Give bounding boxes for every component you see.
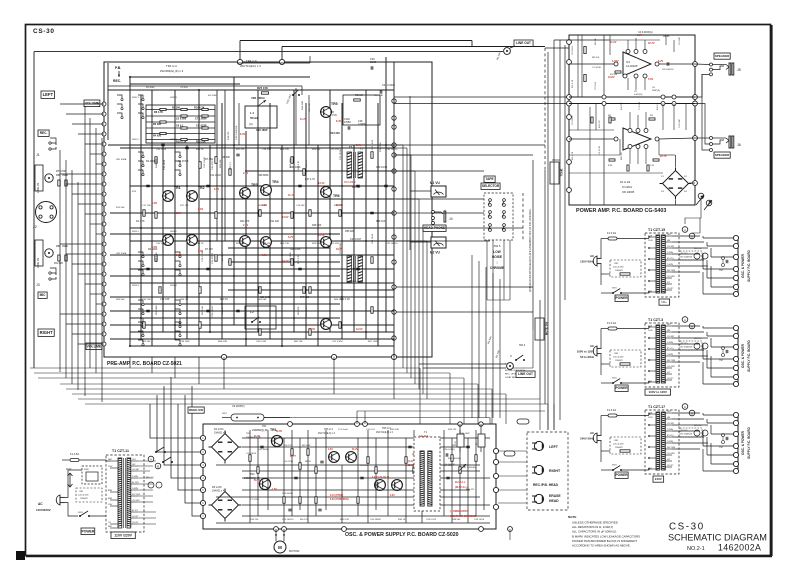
svg-text:OSC. & POWER SUPPLY P.C.: OSC. & POWER SUPPLY P.C. BOARD CZ-5020 — [345, 532, 459, 538]
small components sprinkle — [155, 157, 157, 164]
harness wires block 3 — [703, 414, 733, 416]
switch contact stack S1-1 — [138, 152, 143, 156]
svg-text:(G): (G) — [249, 122, 253, 126]
tone switch stub — [552, 159, 560, 161]
svg-text:/250WV: /250WV — [80, 498, 88, 500]
svg-text:4.7VN: 4.7VN — [330, 114, 337, 117]
svg-text:MIC: MIC — [40, 293, 47, 297]
svg-text:2SD880(Q),(R): 2SD880(Q),(R) — [252, 429, 268, 432]
transformer winding block 1 — [656, 235, 660, 293]
supply board top/bottom terminals — [288, 422, 293, 427]
svg-text:LEFT: LEFT — [549, 445, 559, 449]
svg-text:R99 680K: R99 680K — [258, 174, 269, 177]
svg-text:2.4V: 2.4V — [243, 172, 248, 175]
jack J4 headphone — [432, 211, 435, 214]
svg-text:/250WV: /250WV — [615, 447, 623, 449]
volume control VR2 label — [86, 343, 102, 350]
svg-text:BRN: BRN — [108, 490, 113, 492]
speaker J5 — [714, 53, 730, 59]
svg-text:R29 560: R29 560 — [312, 149, 321, 151]
svg-text:C1 10/16: C1 10/16 — [592, 67, 602, 69]
svg-text:IND-1,2: IND-1,2 — [694, 338, 702, 340]
svg-text:ERASE: ERASE — [549, 494, 561, 498]
transistor TR9 eq — [321, 319, 332, 330]
svg-text:RIGHT: RIGHT — [549, 469, 561, 473]
mech coupling dashed — [544, 48, 546, 170]
line filter CR1 mains — [76, 488, 102, 502]
svg-text:T1 CZT-17: T1 CZT-17 — [648, 405, 665, 409]
wire bundle right risers — [539, 300, 541, 399]
svg-text:10.8V: 10.8V — [608, 76, 615, 79]
CZT-11 secondary taps — [131, 460, 138, 462]
svg-text:C30 100P: C30 100P — [460, 433, 470, 435]
svg-text:SW 5: SW 5 — [494, 244, 501, 248]
svg-text:6.3V: 6.3V — [240, 133, 245, 136]
svg-text:C17 0.1: C17 0.1 — [230, 162, 232, 170]
svg-text:SW1: SW1 — [612, 288, 618, 290]
harness wires block 2 — [703, 327, 733, 329]
svg-text:CR1: CR1 — [614, 263, 619, 265]
svg-text:8T-LP-5: 8T-LP-5 — [681, 253, 688, 255]
svg-text:J3: J3 — [36, 283, 40, 287]
svg-text:PRE-AMP. P.C. BOARD CZ-5021: PRE-AMP. P.C. BOARD CZ-5021 — [107, 361, 182, 367]
svg-text:RG 62K: RG 62K — [54, 261, 63, 265]
svg-text:8.2V: 8.2V — [658, 60, 663, 63]
transistor TR2 right-channel — [187, 235, 198, 246]
svg-text:IND-1,2: IND-1,2 — [694, 425, 702, 427]
svg-text:1N-4001: 1N-4001 — [622, 185, 633, 189]
svg-text:TNT: TNT — [719, 270, 724, 272]
svg-text:C46 180P: C46 180P — [256, 128, 268, 132]
svg-text:R6 85: R6 85 — [663, 35, 670, 38]
bridge rectifier D1-D4 supply — [212, 434, 239, 461]
CZT-11 terminal A — [148, 456, 154, 462]
svg-text:M: M — [278, 545, 282, 550]
svg-text:0.5V: 0.5V — [637, 34, 642, 37]
transformer dashed outline block 3 — [645, 410, 679, 474]
svg-text:C10 10/16: C10 10/16 — [164, 159, 166, 170]
svg-text:11.2V: 11.2V — [610, 41, 617, 44]
svg-text:OV ORN: OV ORN — [667, 453, 675, 455]
svg-text:C4 100/25: C4 100/25 — [246, 453, 257, 455]
svg-text:SW3-2: SW3-2 — [170, 231, 177, 233]
svg-text:C29 10/16: C29 10/16 — [372, 233, 374, 244]
svg-text:R9 4.7K: R9 4.7K — [300, 519, 308, 521]
svg-text:POWER: POWER — [616, 473, 629, 477]
svg-text:5.6V: 5.6V — [648, 78, 653, 81]
svg-text:R8 10K: R8 10K — [595, 38, 597, 45]
svg-text:R1 4.7K: R1 4.7K — [136, 220, 145, 223]
svg-text:120V: 120V — [648, 240, 653, 242]
svg-text:C35 0.0022: C35 0.0022 — [212, 305, 214, 317]
svg-text:P2 0.8A250V: P2 0.8A250V — [681, 256, 693, 259]
svg-text:R35 680: R35 680 — [352, 187, 361, 189]
svg-text:C15 47/6.3: C15 47/6.3 — [212, 253, 214, 264]
svg-text:31.6V: 31.6V — [254, 480, 260, 482]
meter M1 VU — [431, 186, 446, 197]
svg-text:REC.: REC. — [40, 131, 48, 135]
svg-text:CR1: CR1 — [614, 440, 619, 442]
svg-text:TAPE: TAPE — [485, 177, 493, 181]
svg-text:R26 100K: R26 100K — [290, 252, 292, 262]
svg-text:SW3-3: SW3-3 — [132, 285, 139, 287]
svg-text:R22 47K: R22 47K — [240, 220, 250, 223]
wire tape selector drops — [486, 240, 488, 300]
power amp edge terminals — [567, 40, 572, 45]
svg-text:YLW: YLW — [648, 326, 652, 328]
transistor TR1 — [163, 191, 174, 202]
svg-text:120+0.033: 120+0.033 — [613, 444, 624, 446]
svg-text:R35 680: R35 680 — [352, 281, 361, 283]
op-amp IC1 lower half — [623, 128, 651, 150]
svg-text:R15 56K: R15 56K — [116, 207, 125, 209]
power amp misc verticals — [577, 104, 579, 131]
svg-text:5.0V: 5.0V — [214, 188, 219, 191]
svg-text:C15 0.01(K): C15 0.01(K) — [443, 449, 455, 451]
label LINE OUT lower — [516, 371, 535, 377]
svg-text:3.2V: 3.2V — [176, 212, 181, 215]
svg-text:R11 4.7K: R11 4.7K — [572, 79, 574, 88]
line filter CR1 block 1 — [610, 260, 641, 277]
speaker feed wires — [695, 63, 710, 66]
svg-text:ALL CAPACITORS IN µF 50WV(: ALL CAPACITORS IN µF 50WV(J) — [572, 530, 616, 534]
svg-text:UNLESS OTHERWISE SPECIFIED: UNLESS OTHERWISE SPECIFIED — [572, 521, 618, 525]
svg-text:R14 560: R14 560 — [621, 102, 623, 110]
line filter CR1 block 2 — [610, 350, 641, 367]
wire bundle steps down-left — [129, 357, 131, 368]
svg-text:R62 330: R62 330 — [142, 341, 151, 343]
wire eq double verticals — [216, 90, 218, 241]
svg-text:R19 1K: R19 1K — [220, 298, 228, 301]
svg-text:SW6: SW6 — [84, 469, 90, 471]
svg-text:TNT: TNT — [719, 360, 724, 362]
svg-text:C11 0.01: C11 0.01 — [366, 429, 375, 431]
svg-text:120V: 120V — [648, 330, 653, 332]
wire supply left terminal feeds — [150, 404, 201, 438]
terminal A circled block 1 — [682, 227, 688, 233]
svg-text:↕: ↕ — [496, 261, 498, 265]
svg-text:560P(K): 560P(K) — [652, 90, 660, 92]
svg-text:CR1: CR1 — [614, 353, 619, 355]
svg-text:J1: J1 — [36, 153, 40, 157]
svg-text:C6 47/10: C6 47/10 — [284, 461, 294, 463]
harness wires block 1 — [703, 237, 733, 239]
svg-text:SW2-1: SW2-1 — [132, 97, 139, 99]
svg-text:R37 3.3K: R37 3.3K — [374, 95, 384, 97]
svg-text:HEAD: HEAD — [549, 499, 559, 503]
svg-text:2SC711(E,F) x 2: 2SC711(E,F) x 2 — [376, 432, 394, 434]
secondary taps block 1 — [665, 235, 672, 237]
svg-text:U.L.: U.L. — [661, 300, 667, 304]
pre-amp board outline CZ-5021 — [104, 62, 432, 357]
svg-text:1N4001 x 4: 1N4001 x 4 — [212, 490, 225, 493]
svg-text:SW2-2: SW2-2 — [132, 139, 139, 141]
secondary taps block 3 — [665, 412, 672, 414]
primary taps block 1 — [649, 236, 656, 238]
svg-text:R34 220: R34 220 — [330, 131, 340, 135]
wire bundle preamp to supply — [30, 367, 420, 369]
svg-text:MOTOR: MOTOR — [289, 549, 299, 553]
svg-text:OSC. & POWER: OSC. & POWER — [741, 343, 745, 368]
svg-text:R2 100K: R2 100K — [146, 160, 156, 163]
wire transformer block feeders — [539, 399, 541, 430]
svg-text:SW1: SW1 — [612, 378, 618, 380]
svg-text:C22 47/6.3: C22 47/6.3 — [330, 243, 341, 245]
head connector dashed box — [527, 432, 568, 510]
label POWER block 2 — [615, 385, 628, 391]
svg-text:ACCORDING TO AREA SHOWN AS ABO: ACCORDING TO AREA SHOWN AS ABOVE. — [572, 544, 631, 548]
svg-text:30.1V A.L.: 30.1V A.L. — [455, 481, 466, 484]
osc tank resistor boxes — [457, 434, 464, 447]
svg-text:NOTE: NOTE — [568, 515, 576, 519]
svg-text:POWER AMP. P.C. BOARD CG-5: POWER AMP. P.C. BOARD CG-5403 — [576, 208, 666, 214]
terminal B circled block 3 — [689, 410, 695, 416]
svg-text:SW3-4: SW3-4 — [170, 285, 177, 287]
secondary harness block 3 — [672, 412, 700, 414]
svg-text:M1 VU: M1 VU — [430, 181, 440, 185]
svg-text:C2 100/10: C2 100/10 — [572, 45, 574, 55]
tape selector switch box SW5 — [484, 193, 513, 240]
jack J1 — [50, 143, 56, 145]
svg-text:R8 10: R8 10 — [305, 461, 312, 463]
label POWER block 3 — [615, 472, 628, 478]
svg-text:C11 10/16: C11 10/16 — [210, 174, 222, 177]
svg-text:C10 10/16: C10 10/16 — [156, 149, 167, 151]
svg-text:SUPPLY P.C. BOARD: SUPPLY P.C. BOARD — [747, 339, 751, 371]
eq network box — [245, 306, 276, 329]
svg-text:LINE IN: LINE IN — [36, 183, 40, 194]
terminal A circled block 2 — [682, 317, 688, 323]
svg-text:R4 150K: R4 150K — [208, 95, 217, 97]
svg-text:F1 0.3A: F1 0.3A — [607, 321, 616, 325]
svg-text:R58 150: R58 150 — [180, 299, 189, 301]
transistor TR2 — [187, 191, 198, 202]
svg-text:31.2V: 31.2V — [352, 449, 358, 451]
svg-text:R38 10K: R38 10K — [376, 220, 386, 223]
op-amp upper wiring — [569, 63, 614, 65]
transistor TR4 right-channel — [261, 237, 272, 248]
svg-text:LINE OUT: LINE OUT — [518, 372, 533, 376]
label MUTE SW — [535, 318, 544, 340]
svg-text:R64 6.8K: R64 6.8K — [218, 341, 228, 343]
svg-text:1N4001 x 4: 1N4001 x 4 — [214, 432, 227, 435]
svg-text:NOISE: NOISE — [492, 255, 502, 259]
svg-text:J5: J5 — [737, 68, 741, 72]
svg-text:8T-LP-5: 8T-LP-5 — [681, 343, 688, 345]
svg-text:12.0V: 12.0V — [356, 328, 363, 331]
svg-text:C22 47/6.3: C22 47/6.3 — [330, 149, 341, 151]
svg-text:R21 47K: R21 47K — [236, 149, 245, 151]
svg-text:R14 100K: R14 100K — [156, 252, 158, 262]
svg-text:C24 0.022: C24 0.022 — [426, 519, 437, 521]
label HEAD PHONE — [423, 225, 446, 231]
svg-text:R29 560: R29 560 — [312, 243, 321, 245]
svg-text:R4 620: R4 620 — [153, 135, 162, 138]
transistor TR1 supply — [271, 435, 282, 446]
svg-text:T1 CZT-11: T1 CZT-11 — [112, 449, 129, 453]
AC plug block 1 — [593, 256, 597, 266]
svg-text:L16 56P(K): L16 56P(K) — [444, 464, 455, 466]
svg-text:C2 100/10: C2 100/10 — [572, 115, 574, 125]
bracket terminals block 1 — [733, 235, 738, 240]
svg-text:SELECTOR: SELECTOR — [482, 184, 500, 188]
svg-text:C7 0.0056: C7 0.0056 — [195, 118, 207, 121]
svg-text:L.2: L.2 — [250, 310, 254, 314]
svg-text:6.63: 6.63 — [198, 208, 203, 211]
rec/pb head RIGHT — [534, 465, 543, 474]
bias feed box — [343, 95, 380, 125]
secondary harness block 1 — [672, 235, 700, 237]
svg-text:C39 100P: C39 100P — [180, 341, 190, 343]
svg-text:TR1 to 3: TR1 to 3 — [166, 64, 177, 68]
bridge connections — [675, 155, 677, 167]
svg-text:SW7: SW7 — [222, 413, 228, 415]
pre-amp right bus terminals — [392, 99, 396, 103]
line out jack lower — [507, 363, 514, 370]
svg-text:9.1V: 9.1V — [262, 254, 267, 257]
svg-text:SPEAKER: SPEAKER — [715, 54, 730, 58]
voltage box block 2 — [645, 389, 671, 395]
wire A/B feeds to transformers — [685, 199, 701, 224]
label LINE OUT upper — [514, 40, 533, 46]
svg-text:AC: AC — [590, 431, 594, 435]
svg-text:C7 0.022: C7 0.022 — [639, 101, 641, 110]
svg-text:120+0.033: 120+0.033 — [78, 495, 89, 497]
label LINE IN upper — [35, 165, 43, 191]
secondary taps block 2 — [665, 325, 672, 327]
svg-text:C19 30P: C19 30P — [296, 205, 305, 207]
svg-text:110V: 110V — [66, 468, 72, 471]
oscillator trap L1 — [245, 106, 277, 128]
transistor TR3 right-channel — [240, 236, 251, 247]
svg-text:TR3: TR3 — [251, 183, 258, 187]
svg-text:R20 6.8K: R20 6.8K — [390, 429, 400, 431]
svg-text:/250WV: /250WV — [615, 270, 623, 272]
svg-text:C3 3/50: C3 3/50 — [180, 87, 188, 89]
line-in jack lower — [45, 249, 53, 257]
bridge rectifier D1-D4 — [663, 171, 689, 197]
svg-text:31.8V: 31.8V — [276, 431, 282, 433]
power amp board outline CG-5403 — [569, 35, 695, 205]
svg-text:11.2V: 11.2V — [300, 118, 307, 121]
svg-text:R39 560: R39 560 — [452, 519, 461, 521]
meter M2 VU — [431, 237, 446, 248]
svg-text:LA-4032P: LA-4032P — [626, 64, 638, 68]
svg-text:1.5V: 1.5V — [272, 489, 277, 491]
line out jack upper — [504, 48, 511, 55]
svg-text:R11 22K: R11 22K — [270, 220, 280, 223]
reed switch wire across — [264, 417, 490, 419]
svg-text:R46 120: R46 120 — [448, 429, 457, 431]
svg-text:R20 82K: R20 82K — [222, 253, 224, 262]
svg-text:R6 100K: R6 100K — [302, 445, 311, 447]
svg-text:SW3-1: SW3-1 — [132, 231, 139, 233]
svg-text:120+0.033: 120+0.033 — [613, 357, 624, 359]
svg-text:C8 1000/16: C8 1000/16 — [662, 69, 674, 71]
svg-text:YLW: YLW — [648, 236, 652, 238]
terminal A circled block 3 — [682, 404, 688, 410]
terminal B circled block 2 — [689, 323, 695, 329]
svg-text:REC./P.B. HEAD: REC./P.B. HEAD — [533, 483, 559, 487]
svg-text:VOLUME: VOLUME — [85, 101, 100, 105]
svg-text:C9 100P: C9 100P — [679, 37, 681, 45]
svg-text:VR1 30KΩ: VR1 30KΩ — [251, 96, 265, 100]
transformer dashed outline block 2 — [645, 323, 679, 387]
svg-text:R10 220: R10 220 — [250, 519, 259, 521]
svg-text:47MM: 47MM — [344, 121, 351, 124]
svg-text:R10 5.1K: R10 5.1K — [176, 141, 187, 144]
bridge rectifier D5-D8 supply — [212, 492, 239, 519]
svg-text:C8 .022P: C8 .022P — [196, 125, 207, 128]
transformer dashed outline block 1 — [645, 233, 679, 297]
transistor TR1 right-channel — [163, 235, 174, 246]
svg-text:C4 47/6.3: C4 47/6.3 — [178, 160, 189, 163]
svg-text:R50 470: R50 470 — [466, 489, 475, 491]
svg-text:2.4V: 2.4V — [243, 224, 248, 227]
svg-text:C42 100/10: C42 100/10 — [386, 243, 398, 245]
svg-text:C36 1/50: C36 1/50 — [142, 299, 152, 301]
interstage transformer T2 right-channel — [347, 256, 352, 282]
svg-text:TR1: TR1 — [174, 186, 181, 190]
svg-text:OV VLT: OV VLT — [667, 288, 674, 290]
svg-text:YLW: YLW — [648, 413, 652, 415]
svg-text:2SC711(E,F) x 2: 2SC711(E,F) x 2 — [318, 433, 336, 435]
svg-text:22.7V: 22.7V — [648, 42, 655, 45]
svg-text:C20 3300P: C20 3300P — [370, 519, 381, 521]
svg-text:1.02V: 1.02V — [612, 60, 619, 63]
svg-text:SW 3: SW 3 — [519, 344, 526, 347]
svg-text:110V /220V: 110V /220V — [114, 533, 132, 537]
svg-text:C40 0.033: C40 0.033 — [256, 341, 267, 343]
wire heads vertical bundle — [471, 255, 473, 418]
svg-text:0.022(K): 0.022(K) — [634, 94, 643, 96]
svg-text:R47 100: R47 100 — [300, 296, 310, 299]
svg-text:R63 47K: R63 47K — [298, 306, 300, 315]
svg-text:R31 1.5K: R31 1.5K — [334, 205, 344, 207]
svg-text:R59 56K: R59 56K — [116, 299, 125, 301]
secondary harness block 2 — [672, 325, 700, 327]
speaker J6 — [710, 137, 713, 140]
svg-text:OR 10D05: OR 10D05 — [622, 190, 635, 194]
bracket terminals block 3 — [733, 412, 738, 417]
head feed wires — [498, 450, 527, 452]
svg-text:R16-5803: R16-5803 — [344, 180, 356, 184]
svg-text:C5 0.056: C5 0.056 — [176, 118, 187, 121]
svg-text:LOW: LOW — [493, 250, 500, 254]
svg-text:TR2: TR2 — [198, 186, 205, 190]
line-in jack upper — [45, 174, 53, 182]
supply board edge terminals — [200, 435, 205, 440]
svg-text:8.4V: 8.4V — [336, 120, 341, 123]
svg-text:6.1V (STOP): 6.1V (STOP) — [330, 495, 343, 497]
svg-text:C37 22/6.3: C37 22/6.3 — [306, 306, 308, 317]
transistor TR6 right-channel — [321, 237, 332, 248]
interstage transformer T1 left — [347, 152, 352, 178]
svg-text:0.0068: 0.0068 — [358, 123, 366, 126]
svg-text:C27 0.0022: C27 0.0022 — [382, 84, 396, 87]
transformer CZT-11 windings — [118, 458, 122, 528]
svg-text:POWER: POWER — [81, 529, 94, 533]
svg-text:C29 10/16: C29 10/16 — [376, 166, 388, 169]
svg-text:J6: J6 — [737, 143, 741, 147]
transformer winding block 2 — [656, 325, 660, 383]
svg-text:C7 47/25: C7 47/25 — [250, 499, 260, 501]
svg-text:P.B.: P.B. — [115, 66, 121, 70]
transformer winding block 3 — [656, 412, 660, 470]
label LINE IN lower — [35, 240, 43, 266]
erase head — [534, 494, 543, 503]
board bracket block 3 — [737, 413, 739, 473]
